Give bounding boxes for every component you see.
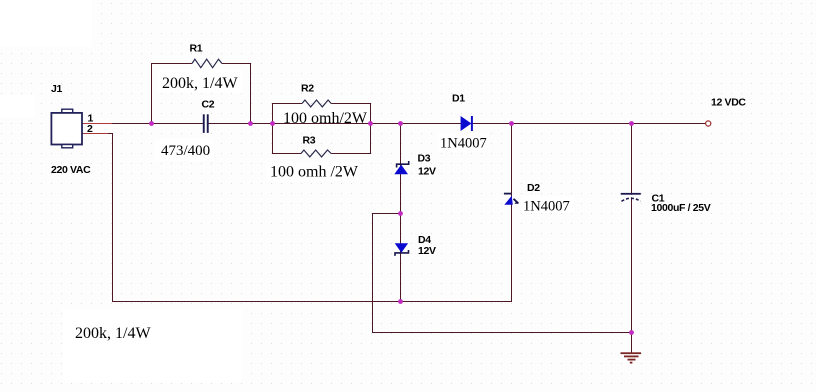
svg-text:200k, 1/4W: 200k, 1/4W [75,325,151,342]
svg-text:220 VAC: 220 VAC [51,164,91,176]
zener D4 [395,243,409,256]
diode D2 [504,194,519,205]
wire J1 pin2 stub [82,133,108,135]
wire C1 branch vertical [631,124,633,333]
wire J1 pin2 to bottom rail [82,124,512,302]
svg-text:D1: D1 [452,93,465,105]
resistor R3 [301,150,331,157]
node junction dots [149,121,634,335]
svg-text:473/400: 473/400 [161,143,210,159]
svg-text:12V: 12V [418,165,436,177]
capacitor C2 [203,114,209,133]
wire D3/D4 branch vertical [400,124,402,302]
svg-text:12 VDC: 12 VDC [711,97,746,109]
svg-text:12V: 12V [418,245,436,257]
wire J1 pin1 stub [82,123,112,125]
svg-text:D2: D2 [527,182,540,194]
wire bus right of C2 [209,123,706,125]
node output terminal 12 VDC [706,121,711,126]
svg-text:200k, 1/4W: 200k, 1/4W [162,75,238,92]
wire main bus from J1 pin1 to output [82,123,203,125]
resistor R2 [302,100,331,107]
svg-text:R1: R1 [190,43,203,55]
svg-text:100 omh /2W: 100 omh /2W [270,164,359,181]
connector J1 [51,109,82,148]
resistor R1 [192,59,222,67]
svg-text:R3: R3 [303,134,316,146]
wire R2/R3 loop box [273,104,303,124]
svg-text:C2: C2 [202,99,215,111]
zener D3 [394,161,408,174]
wire R1/C2 loop box [152,64,193,124]
svg-text:100 omh/2W: 100 omh/2W [283,110,368,127]
svg-text:R2: R2 [301,82,314,94]
svg-text:2: 2 [87,123,93,135]
ground [621,333,642,364]
diode D1 [461,116,473,131]
svg-text:1N4007: 1N4007 [523,199,570,215]
svg-text:1000uF / 25V: 1000uF / 25V [651,202,711,214]
capacitor C1 [621,193,641,201]
svg-text:D3: D3 [418,153,431,165]
white patches (text backgrounds) [0,0,92,47]
svg-text:J1: J1 [51,83,62,95]
svg-text:1N4007: 1N4007 [440,136,487,152]
wire mid tap to ground rail [373,214,632,333]
